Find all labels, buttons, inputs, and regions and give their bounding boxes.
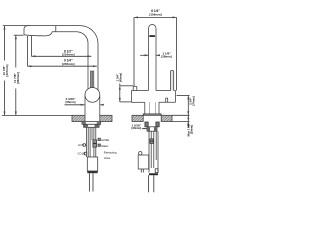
svg-text:COLD: COLD xyxy=(78,152,86,156)
svg-text:[35mm]: [35mm] xyxy=(189,125,193,134)
svg-text:Hose: Hose xyxy=(104,156,111,160)
svg-text:[302mm]: [302mm] xyxy=(16,72,20,84)
svg-text:[28mm]: [28mm] xyxy=(161,55,171,59)
svg-text:[327mm]: [327mm] xyxy=(5,65,9,77)
svg-text:Water: Water xyxy=(101,144,108,148)
svg-text:[56mm]: [56mm] xyxy=(66,100,76,104)
svg-text:[70mm]: [70mm] xyxy=(191,96,195,105)
svg-text:HOT: HOT xyxy=(78,143,84,147)
svg-text:[159mm]: [159mm] xyxy=(149,12,161,16)
svg-text:HOSE: HOSE xyxy=(101,138,109,142)
svg-text:[235mm]: [235mm] xyxy=(62,62,74,66)
svg-text:Retracting: Retracting xyxy=(104,151,117,155)
svg-text:[33mm]: [33mm] xyxy=(132,126,142,130)
svg-text:[216mm]: [216mm] xyxy=(62,53,74,57)
svg-text:[45mm]: [45mm] xyxy=(118,73,122,82)
